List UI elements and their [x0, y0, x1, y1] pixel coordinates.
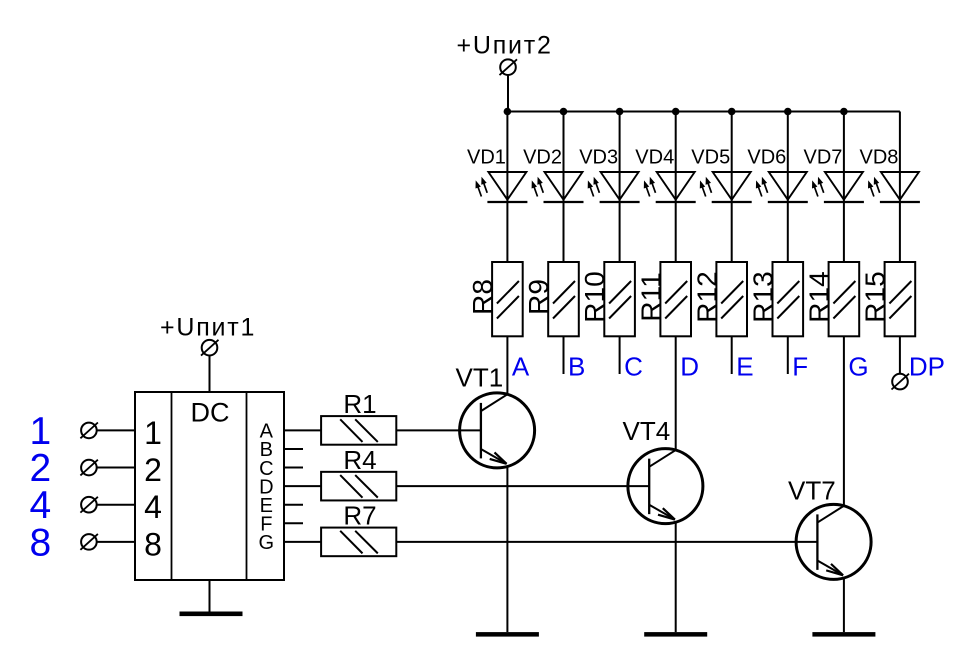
svg-text:VD6: VD6 — [747, 147, 786, 169]
resistor R13 — [773, 262, 804, 336]
wire net DP — [899, 336, 901, 374]
wire output G — [284, 541, 321, 543]
junction node B column — [560, 108, 568, 116]
wire output C — [284, 467, 303, 469]
svg-text:VT4: VT4 — [623, 416, 671, 446]
terminal input 8 — [80, 534, 98, 550]
svg-text:2: 2 — [144, 452, 162, 488]
terminal input 1 — [80, 423, 98, 439]
svg-text:VD2: VD2 — [523, 147, 562, 169]
resistor R11 — [660, 262, 691, 336]
svg-text:E: E — [736, 352, 753, 382]
wire — [506, 112, 508, 263]
LED VD6 — [756, 172, 808, 202]
svg-text:+Uпит1: +Uпит1 — [160, 313, 256, 341]
wire — [209, 356, 211, 393]
ground (VT4) — [644, 632, 707, 637]
wire output E — [284, 504, 303, 506]
wire net F — [787, 336, 789, 374]
LED VD3 — [588, 172, 640, 202]
terminal input 2 — [80, 460, 98, 476]
LED VD2 — [532, 172, 584, 202]
svg-text:DC: DC — [191, 397, 230, 427]
wire output F — [284, 522, 303, 524]
wire — [97, 429, 135, 431]
svg-text:+Uпит2: +Uпит2 — [456, 32, 552, 60]
wire — [843, 112, 845, 263]
wire — [787, 112, 789, 263]
transistor VT1 — [460, 393, 535, 468]
svg-text:C: C — [624, 352, 643, 382]
svg-text:G: G — [848, 352, 868, 382]
svg-text:4: 4 — [144, 489, 162, 525]
resistor R1 — [321, 416, 396, 445]
ground (VT7) — [812, 632, 875, 637]
decoder DC body — [135, 392, 284, 580]
resistor R9 — [548, 262, 579, 336]
resistor R12 — [716, 262, 747, 336]
wire — [563, 112, 565, 263]
junction node F column — [784, 108, 792, 116]
svg-text:D: D — [680, 352, 699, 382]
svg-text:DP: DP — [909, 352, 945, 382]
wire VT1 emitter — [506, 465, 508, 632]
junction node A column — [504, 108, 512, 116]
resistor R7 — [321, 528, 396, 557]
wire net A — [506, 336, 508, 395]
transistor VT4 — [628, 449, 703, 524]
wire net B — [563, 336, 565, 374]
svg-text:VD7: VD7 — [803, 147, 842, 169]
svg-text:VD3: VD3 — [579, 147, 618, 169]
ground (VT1) — [476, 632, 539, 637]
LED VD4 — [644, 172, 696, 202]
resistor R10 — [604, 262, 635, 336]
terminal input 4 — [80, 497, 98, 513]
wire — [899, 112, 901, 263]
wire R1 to VT1 base — [396, 429, 481, 431]
svg-text:VT7: VT7 — [788, 476, 836, 506]
ground (decoder) — [180, 612, 243, 617]
wire — [619, 112, 621, 263]
wire VT7 emitter — [843, 577, 845, 632]
wire — [731, 112, 733, 263]
svg-text:R7: R7 — [343, 501, 376, 531]
resistor R4 — [321, 472, 396, 501]
LED VD5 — [700, 172, 752, 202]
LED VD1 — [476, 172, 528, 202]
wire net D — [675, 336, 677, 451]
junction node D column — [672, 108, 680, 116]
wire output A — [284, 429, 321, 431]
resistor R14 — [829, 262, 860, 336]
wire net G — [843, 336, 845, 506]
svg-text:R1: R1 — [343, 389, 376, 419]
wire net E — [731, 336, 733, 374]
wire output D — [284, 485, 321, 487]
wire — [97, 541, 135, 543]
wire R7 to VT7 base — [396, 541, 817, 543]
svg-text:VD5: VD5 — [691, 147, 730, 169]
wire R4 to VT4 base — [396, 485, 649, 487]
svg-text:G: G — [259, 532, 275, 554]
power bus — [506, 111, 900, 113]
svg-text:A: A — [512, 352, 530, 382]
wire — [209, 580, 211, 612]
svg-text:R4: R4 — [343, 445, 376, 475]
LED VD8 — [868, 172, 920, 202]
wire output B — [284, 448, 303, 450]
svg-text:VD8: VD8 — [859, 147, 898, 169]
junction node G column — [840, 108, 848, 116]
wire VT4 emitter — [675, 521, 677, 632]
svg-text:1: 1 — [144, 415, 162, 451]
svg-text:VD4: VD4 — [635, 147, 674, 169]
wire — [97, 504, 135, 506]
terminal +Uпит1 — [201, 340, 219, 356]
junction node C column — [616, 108, 624, 116]
svg-text:VD1: VD1 — [467, 147, 506, 169]
resistor R8 — [492, 262, 523, 336]
resistor R15 — [885, 262, 916, 336]
wire — [675, 112, 677, 263]
junction node E column — [728, 108, 736, 116]
wire — [97, 467, 135, 469]
wire — [507, 75, 509, 112]
svg-text:B: B — [568, 352, 585, 382]
transistor VT7 — [796, 504, 871, 579]
svg-text:8: 8 — [144, 526, 162, 562]
wire net C — [619, 336, 621, 374]
svg-text:F: F — [792, 352, 808, 382]
terminal +Uпит2 — [500, 59, 518, 75]
svg-text:VT1: VT1 — [456, 363, 504, 393]
svg-text:8: 8 — [29, 521, 51, 564]
LED VD7 — [812, 172, 864, 202]
terminal DP — [892, 374, 910, 390]
